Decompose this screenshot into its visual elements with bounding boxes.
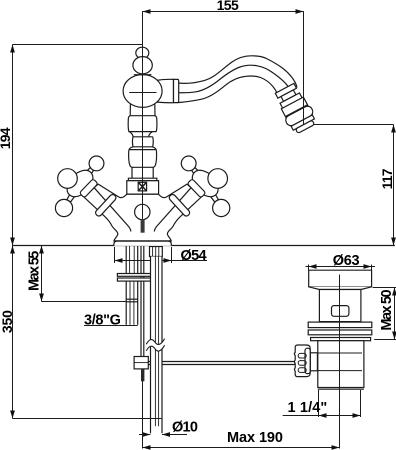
drain body <box>319 290 361 322</box>
svg-text:194: 194 <box>0 127 13 149</box>
base D54 <box>114 241 171 246</box>
rod clamp block <box>134 357 148 369</box>
dimension 350 line <box>12 246 14 419</box>
svg-text:Ø54: Ø54 <box>181 248 207 264</box>
left handle front ball <box>58 169 78 189</box>
spout tube middle curve <box>178 65 289 93</box>
aerator thick edge <box>286 106 307 117</box>
column small finial ball <box>136 47 149 58</box>
aerator big ring <box>284 105 315 128</box>
dimension Max 190 line <box>143 447 340 449</box>
flange shoulder <box>309 287 372 290</box>
supply shank outer <box>125 246 127 274</box>
aerator body <box>281 97 308 117</box>
main spout ball <box>123 75 162 108</box>
body window <box>332 306 349 317</box>
pop-up knob <box>135 204 150 219</box>
dimension 155 line <box>143 12 304 125</box>
svg-text:Max 50: Max 50 <box>379 289 395 330</box>
concave ring <box>129 132 153 147</box>
extension line top of faucet <box>13 44 143 46</box>
dimension Max 55 line <box>41 246 43 302</box>
washer plate 1 <box>308 322 372 328</box>
right bonnet washer <box>187 179 206 198</box>
pop-up rod upper <box>140 246 142 357</box>
column neck below ball <box>130 104 155 116</box>
pop-up guide pipe D10 <box>151 257 163 434</box>
extension line over pipe <box>147 418 162 420</box>
drain tube <box>318 341 364 388</box>
mounting plates (horseshoe washer and nut) <box>117 274 158 277</box>
aerator collar 1 <box>275 83 296 98</box>
spout connector cylinder <box>156 79 174 102</box>
svg-text:Ø10: Ø10 <box>172 420 198 436</box>
ring bulge 2 <box>129 147 157 168</box>
svg-text:Max 55: Max 55 <box>26 251 42 291</box>
ring bulge 1 <box>128 116 157 132</box>
extension line spout outlet <box>305 124 394 126</box>
svg-text:350: 350 <box>0 310 15 333</box>
washer plate 2 <box>308 330 372 335</box>
extension line over aerator <box>303 76 305 125</box>
narrow cylinder <box>132 167 153 178</box>
dimension 155 arrows <box>143 9 304 14</box>
dimension Max 50 line <box>394 288 396 340</box>
extension line shank nut <box>42 301 127 303</box>
right bonnet collar band <box>168 193 191 217</box>
spout tube inner curve <box>178 76 278 103</box>
connector ring <box>174 79 179 102</box>
svg-text:Ø63: Ø63 <box>333 253 360 269</box>
extension faucet axis <box>142 381 144 449</box>
dimension 117 line <box>393 125 395 246</box>
faucet centre line <box>142 44 144 219</box>
aerator collar 2 <box>280 93 302 109</box>
spout tube outer curve <box>178 56 298 88</box>
dimension 194 line <box>12 45 14 246</box>
rod joint connector <box>310 353 317 371</box>
extension lines drain flange <box>373 287 396 289</box>
shoulder line <box>134 74 152 76</box>
left handle top ball <box>89 156 104 171</box>
aerator neck <box>281 90 296 101</box>
faucet body with bonnet cones <box>84 184 202 241</box>
extension line hose end <box>13 418 162 420</box>
drain centre line <box>339 275 341 449</box>
dimension Max 50 arrows <box>392 288 396 340</box>
svg-text:117: 117 <box>379 168 395 189</box>
left handle stems <box>67 168 94 202</box>
deck line <box>13 245 395 247</box>
left bonnet washer <box>79 179 98 198</box>
wheel flange bar <box>305 348 310 373</box>
dimension 117 arrows <box>391 125 396 246</box>
pipe break symbol <box>146 339 164 351</box>
dimension Max 55 arrows <box>39 246 44 302</box>
dimension D10 <box>139 434 151 436</box>
screw symbol <box>138 182 146 191</box>
valve block <box>127 181 159 194</box>
dimension D63 <box>308 265 310 271</box>
flange cap D63 <box>309 270 372 287</box>
dimension 194 arrows <box>10 45 15 246</box>
aerator assembly <box>272 82 319 136</box>
tube bottom cap <box>318 388 364 390</box>
horizontal pop-up rod to drain <box>148 361 295 363</box>
supply shank inner thread lines <box>129 246 131 274</box>
right handle stems <box>181 156 230 217</box>
locknut plate <box>311 338 371 341</box>
supply nut tube <box>125 281 127 325</box>
lower rod below clamp <box>141 369 144 381</box>
collar above block <box>128 178 156 181</box>
rod housing lines <box>318 352 362 354</box>
left handle bottom ball <box>55 199 72 216</box>
wheel slots <box>298 353 306 358</box>
dimension 1 1/4 <box>318 390 320 417</box>
castellated wheel nut <box>294 345 310 377</box>
dimension D54 <box>114 247 116 263</box>
svg-text:Max 190: Max 190 <box>227 430 283 446</box>
knob stem <box>141 220 145 233</box>
left bonnet collar band <box>94 193 117 217</box>
column second ball <box>133 57 152 74</box>
aerator tip cap <box>295 120 314 133</box>
dimension 350 arrows <box>10 246 15 419</box>
left handle hub <box>62 165 98 201</box>
threaded collar on pipe <box>150 247 163 257</box>
extension drain axis <box>339 389 341 449</box>
ball centre line <box>129 92 156 94</box>
bonnet-body junction lines <box>93 186 192 231</box>
svg-text:1 1/4": 1 1/4" <box>288 400 328 416</box>
aerator end ring <box>291 115 314 130</box>
svg-text:155: 155 <box>217 0 239 13</box>
